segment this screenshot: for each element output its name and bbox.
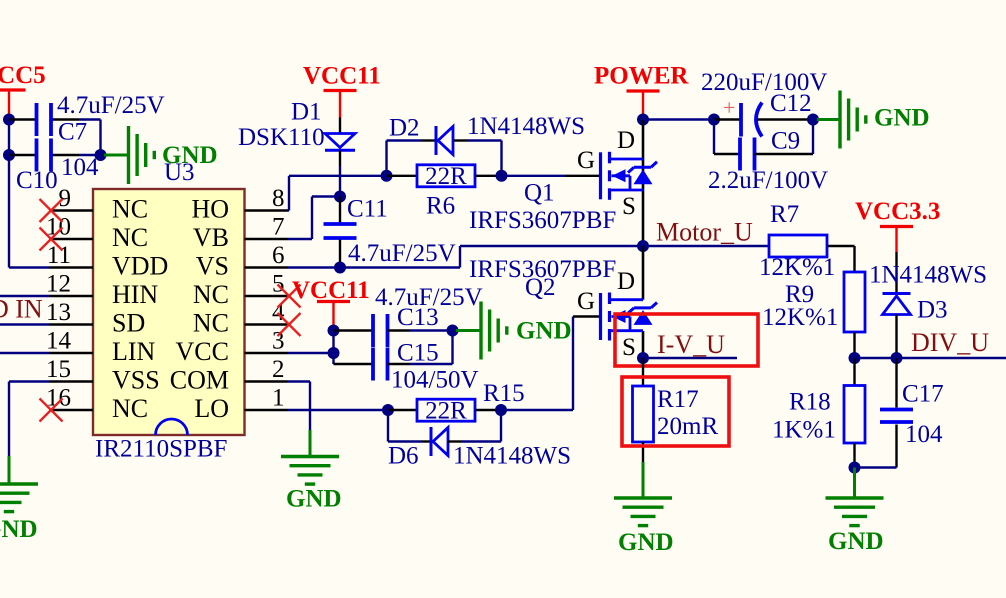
pin 15 stub — [49, 380, 93, 383]
resistor R17 20mR shunt — [642, 358, 644, 386]
svg-text:NC: NC — [193, 280, 229, 309]
svg-text:4.7uF/25V: 4.7uF/25V — [348, 240, 456, 267]
resistor R9 12K%1 — [844, 272, 865, 332]
svg-text:2: 2 — [272, 356, 285, 383]
wire VCC5 net down to VDD pin 11 — [8, 155, 10, 268]
junction Motor_U node — [637, 240, 649, 252]
ground symbol bottom right — [853, 468, 856, 499]
svg-text:R6: R6 — [426, 193, 455, 220]
transistor Q1 IRFS3607PBF — [642, 120, 645, 160]
wire VS pin 6 to Motor_U — [288, 266, 460, 268]
capacitor C10 — [9, 154, 37, 156]
svg-text:14: 14 — [46, 328, 72, 355]
junction R6 left — [381, 170, 393, 182]
pin 12 stub — [49, 295, 93, 298]
transistor Q2 IRFS3607PBF — [642, 246, 645, 300]
junction at C10 row — [3, 149, 15, 161]
svg-text:R17: R17 — [657, 386, 699, 413]
capacitor C9 2.2uF/100V — [713, 120, 715, 155]
svg-text:C10: C10 — [16, 167, 58, 194]
resistor R7 12K%1 — [769, 235, 827, 257]
capacitor C7 — [9, 118, 37, 120]
svg-text:8: 8 — [272, 185, 285, 212]
diode D2 1N4148WS loop — [385, 141, 387, 176]
svg-text:GND: GND — [286, 486, 342, 513]
svg-text:HIN: HIN — [112, 280, 158, 309]
pin 9 stub — [49, 209, 93, 212]
wire R15 to Q2 gate — [501, 409, 573, 411]
diode D3 1N4148WS — [895, 252, 897, 294]
svg-text:13: 13 — [46, 299, 71, 326]
svg-text:C13: C13 — [397, 304, 439, 331]
pin 13 stub — [49, 323, 93, 326]
svg-text:22R: 22R — [425, 163, 467, 190]
svg-text:VSS: VSS — [112, 366, 160, 395]
svg-text:1N4148WS: 1N4148WS — [467, 113, 585, 140]
svg-text:7: 7 — [272, 214, 285, 241]
capacitor C12 220uF/100V polarized — [714, 118, 741, 120]
junction VCC11/C13 — [328, 325, 340, 337]
svg-text:S: S — [622, 334, 636, 361]
svg-text:C9: C9 — [771, 128, 800, 155]
junction DIV_U right — [891, 352, 903, 364]
svg-text:DSK110: DSK110 — [238, 124, 325, 151]
svg-text:D6: D6 — [388, 443, 419, 470]
svg-text:12K%1: 12K%1 — [762, 304, 838, 331]
annotation box I-V_U — [615, 314, 758, 366]
IC U3 IR2110SPBF body — [93, 189, 245, 435]
wire R6 to Q1 gate — [502, 175, 566, 177]
annotation box R17 — [622, 377, 729, 446]
pin 3 stub — [245, 352, 289, 355]
svg-text:4.7uF/25V: 4.7uF/25V — [57, 92, 165, 119]
ground symbol VSS — [8, 456, 11, 484]
svg-text:VCC3.3: VCC3.3 — [855, 198, 940, 225]
no-connect X pin 9 — [40, 199, 63, 222]
svg-text:D2: D2 — [389, 115, 420, 142]
svg-text:IR2110SPBF: IR2110SPBF — [95, 436, 227, 463]
svg-text:NC: NC — [112, 223, 148, 252]
wire VCC5 stem to C7 row — [8, 117, 10, 155]
junction C12 right — [807, 114, 819, 126]
capacitor C13 4.7uF/25V — [334, 329, 374, 331]
svg-text:1N4148WS: 1N4148WS — [869, 262, 987, 289]
svg-text:GND: GND — [828, 528, 884, 555]
svg-text:G: G — [577, 147, 595, 174]
svg-text:1N4148WS: 1N4148WS — [453, 443, 571, 470]
svg-text:C15: C15 — [397, 340, 439, 367]
svg-text:D: D — [617, 127, 635, 154]
svg-text:C7: C7 — [58, 119, 87, 146]
svg-text:Q2: Q2 — [525, 274, 556, 301]
pin 5 stub — [245, 295, 289, 298]
svg-text:1: 1 — [272, 385, 285, 412]
svg-text:GND: GND — [874, 105, 930, 132]
svg-text:GND: GND — [618, 529, 674, 556]
svg-text:VCC: VCC — [176, 337, 229, 366]
resistor R6 22R — [387, 175, 418, 177]
ground symbol COM — [309, 430, 312, 457]
svg-text:U3: U3 — [164, 159, 195, 186]
svg-text:6: 6 — [272, 242, 285, 269]
pin 11 stub — [49, 266, 93, 269]
wire R7 to R9 — [827, 245, 855, 247]
wire LO pin 1 to R15 — [288, 409, 388, 411]
pin 10 stub — [49, 238, 93, 241]
svg-text:D1: D1 — [291, 99, 322, 126]
pin 7 stub — [245, 238, 289, 241]
svg-text:HO: HO — [191, 195, 229, 224]
svg-text:D IN: D IN — [0, 295, 43, 324]
junction at C7 row — [3, 114, 15, 126]
pin 1 stub — [245, 409, 289, 412]
svg-text:VS: VS — [196, 252, 229, 281]
svg-text:Q1: Q1 — [524, 180, 555, 207]
junction I-V_U node — [637, 352, 649, 364]
wire C7 right to junction — [79, 118, 101, 120]
ground symbol top-left — [104, 154, 128, 157]
wire POWER to C12 — [643, 118, 714, 120]
svg-text:C11: C11 — [347, 196, 388, 223]
svg-text:GND: GND — [0, 516, 38, 543]
svg-text:GND: GND — [516, 318, 572, 345]
svg-text:R18: R18 — [789, 389, 831, 416]
no-connect X pin 16 — [40, 399, 63, 422]
junction VB node — [334, 191, 346, 203]
no-connect X pin 4 — [278, 313, 301, 336]
svg-text:NC: NC — [112, 394, 148, 423]
svg-text:D: D — [617, 268, 635, 295]
svg-text:+: + — [723, 95, 735, 120]
svg-text:VCC5: VCC5 — [0, 62, 46, 89]
svg-text:C12: C12 — [770, 90, 812, 117]
wire D1 cathode down to VB node — [339, 166, 341, 197]
wire pin 7 VB riser — [288, 238, 312, 240]
capacitor C15 104/50V — [334, 363, 374, 365]
wire Motor_U to R7 — [643, 245, 769, 247]
wire C10 right — [79, 154, 101, 156]
wire R9 bottom to DIV_U — [853, 332, 855, 358]
svg-text:15: 15 — [46, 356, 71, 383]
ground symbol C13 — [456, 329, 481, 332]
junction R15 left — [382, 404, 394, 416]
junction DIV_U left — [849, 352, 861, 364]
svg-text:COM: COM — [170, 366, 229, 395]
svg-text:POWER: POWER — [594, 63, 689, 90]
resistor R15 22R — [388, 409, 417, 411]
ground symbol Q2/R17 — [642, 462, 645, 498]
diode D1 DSK110 — [339, 118, 341, 134]
wire VCC pin 3 to VCC11 — [288, 352, 334, 354]
svg-text:104: 104 — [61, 154, 99, 181]
diode D6 1N4148WS loop — [387, 410, 389, 442]
svg-text:104/50V: 104/50V — [391, 367, 479, 394]
svg-text:D3: D3 — [917, 297, 948, 324]
svg-text:9: 9 — [59, 185, 72, 212]
svg-text:20mR: 20mR — [657, 413, 718, 440]
IC bottom arc marker — [156, 419, 188, 435]
svg-text:I-V_U: I-V_U — [657, 330, 725, 359]
pin 16 stub — [49, 409, 93, 412]
svg-text:NC: NC — [112, 195, 148, 224]
wire COM pin 2 to ground — [288, 380, 310, 382]
no-connect X pin 5 — [278, 285, 301, 308]
svg-text:G: G — [577, 288, 595, 315]
capacitor C11 — [339, 197, 341, 223]
svg-text:S: S — [622, 193, 636, 220]
svg-text:VB: VB — [193, 223, 229, 252]
wire I-V_U — [643, 357, 737, 359]
junction C11 bottom on VS wire — [334, 262, 346, 274]
svg-text:VCC11: VCC11 — [303, 63, 381, 90]
svg-text:Motor_U: Motor_U — [656, 218, 753, 247]
svg-text:VDD: VDD — [112, 252, 168, 281]
svg-text:LO: LO — [194, 394, 229, 423]
junction VCC11/pin3 — [328, 347, 340, 359]
junction C12 left — [708, 114, 720, 126]
pin 6 stub — [245, 266, 289, 269]
junction R15 right — [495, 404, 507, 416]
svg-text:12K%1: 12K%1 — [759, 254, 835, 281]
svg-text:R15: R15 — [483, 380, 525, 407]
wire VSS pin 15 to ground — [9, 380, 49, 382]
svg-text:LIN: LIN — [112, 337, 156, 366]
svg-text:DIV_U: DIV_U — [911, 328, 989, 357]
svg-text:22R: 22R — [425, 397, 467, 424]
svg-text:SD: SD — [112, 309, 145, 338]
junction C7/C10/GND — [95, 149, 107, 161]
svg-text:R7: R7 — [770, 201, 799, 228]
no-connect X pin 10 — [40, 228, 63, 251]
svg-text:104: 104 — [905, 421, 943, 448]
svg-text:12: 12 — [46, 271, 71, 298]
svg-text:C17: C17 — [902, 381, 944, 408]
pin 4 stub — [245, 323, 289, 326]
wire HO pin 8 riser — [288, 209, 289, 211]
junction C13 right — [447, 325, 459, 337]
capacitor C17 104 — [895, 358, 897, 408]
svg-text:NC: NC — [193, 309, 229, 338]
wire HIN pin 12 to sheet edge — [0, 295, 49, 297]
junction POWER node — [637, 114, 649, 126]
resistor R18 1K%1 — [853, 358, 855, 386]
wire LIN pin 14 to sheet edge — [0, 352, 49, 354]
svg-text:2.2uF/100V: 2.2uF/100V — [708, 167, 828, 194]
junction R18/C17 bottom — [849, 462, 861, 474]
svg-text:1K%1: 1K%1 — [772, 417, 836, 444]
wire HO row to R6 — [289, 175, 387, 177]
ground symbol right of C12 — [817, 118, 839, 121]
pin 2 stub — [245, 380, 289, 383]
junction R6 right — [496, 170, 508, 182]
wire DIV_U to sheet edge — [855, 357, 1006, 359]
pin 14 stub — [49, 352, 93, 355]
pin 8 stub — [245, 209, 289, 212]
wire SD pin 13 to sheet edge — [0, 323, 49, 325]
svg-text:IRFS3607PBF: IRFS3607PBF — [469, 207, 616, 234]
